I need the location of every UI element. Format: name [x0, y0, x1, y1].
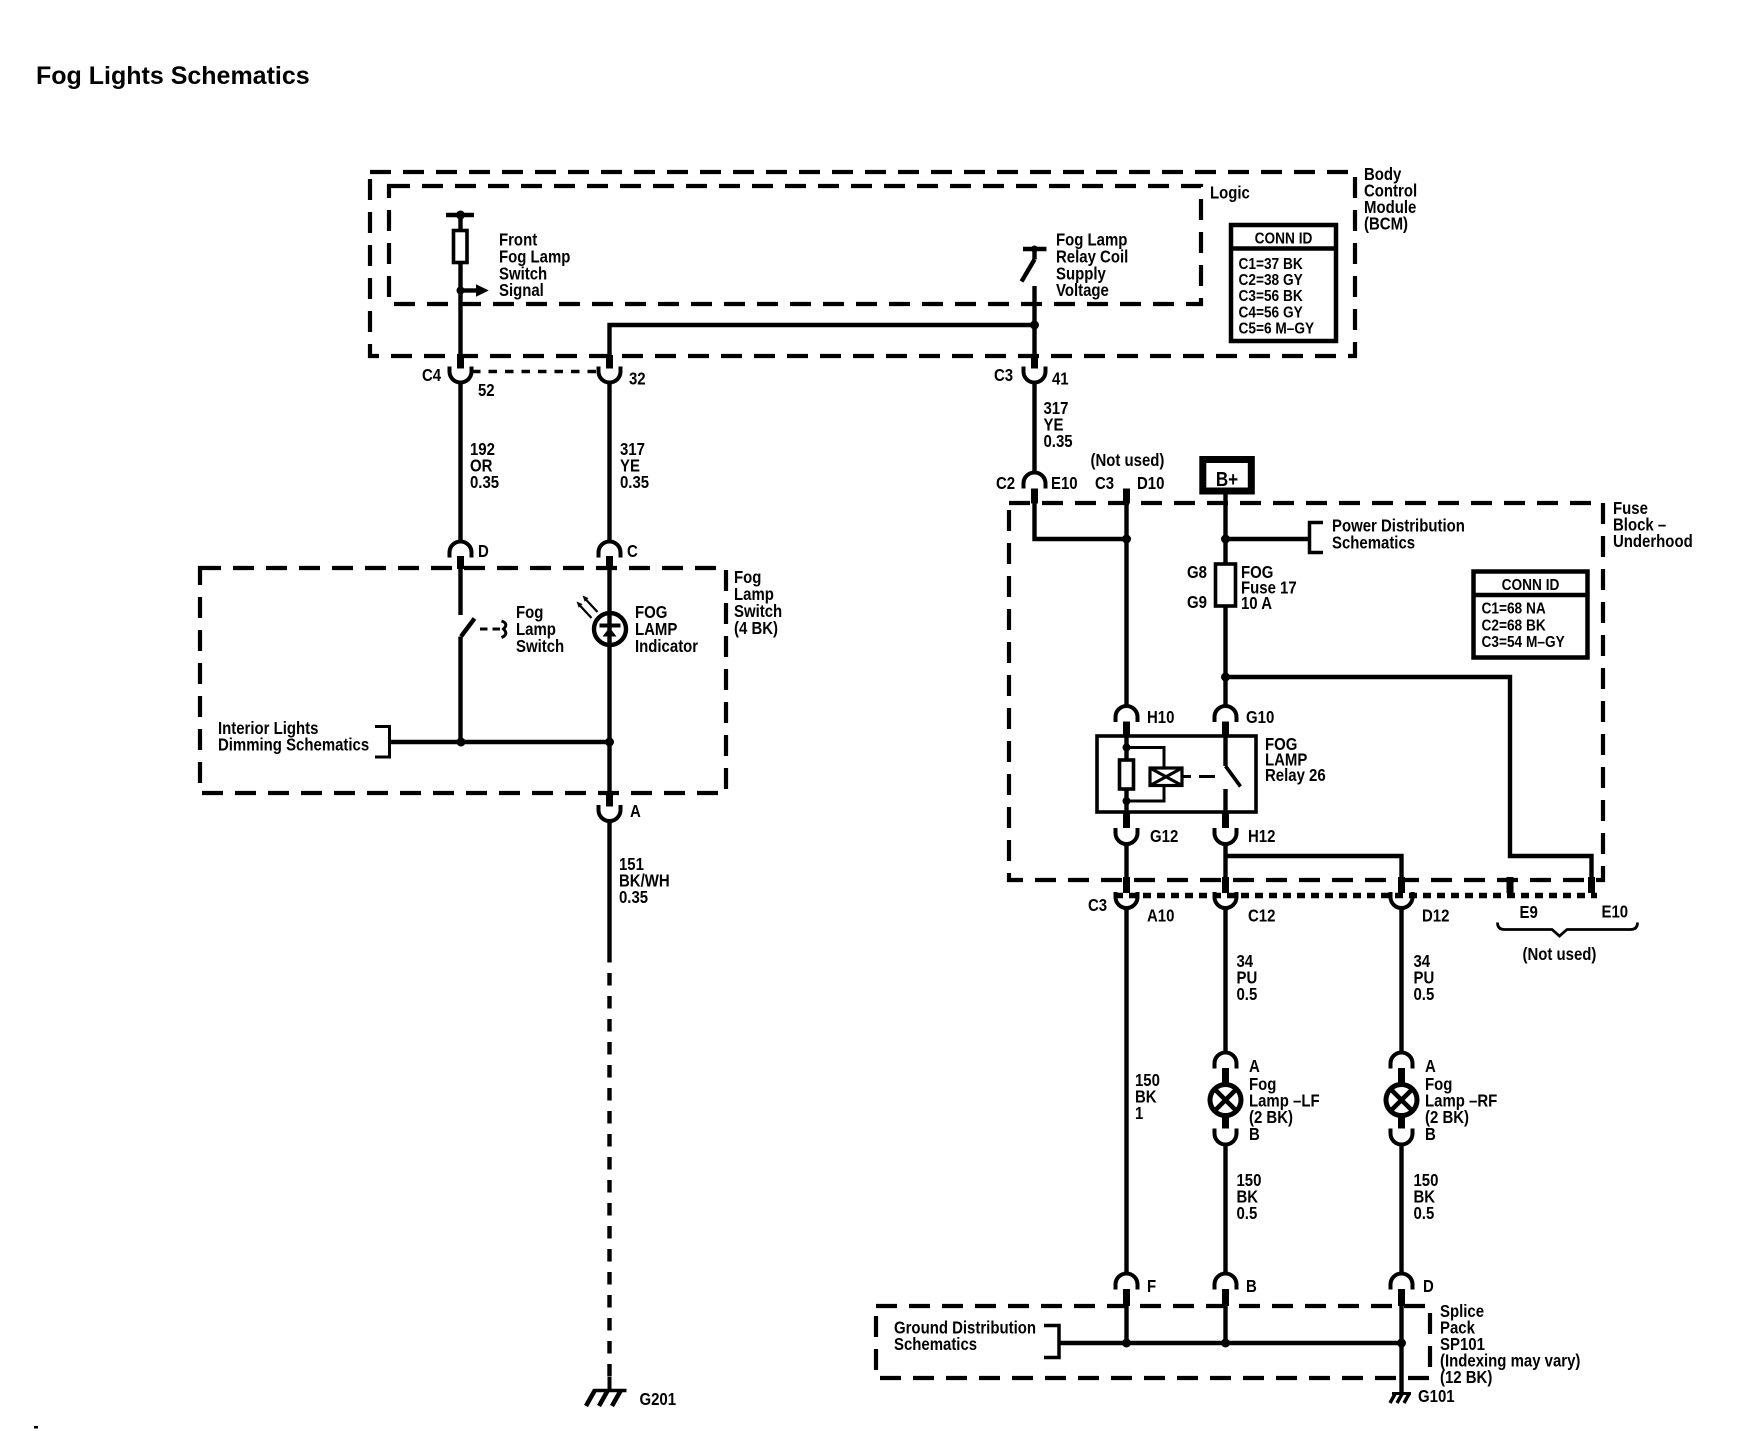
- connector pin D: [450, 542, 472, 570]
- svg-text:52: 52: [478, 381, 495, 400]
- svg-text:C3: C3: [1095, 474, 1114, 493]
- svg-text:CONN ID: CONN ID: [1502, 577, 1560, 594]
- CONN ID table (BCM): [1231, 225, 1336, 341]
- pin stub D10: [1123, 489, 1130, 504]
- bracket ground distribution: [1044, 1326, 1059, 1358]
- svg-text:CONN ID: CONN ID: [1255, 231, 1313, 248]
- connector C4 pin 52: [450, 355, 472, 383]
- svg-text:D: D: [478, 542, 489, 561]
- svg-text:G12: G12: [1150, 827, 1178, 846]
- svg-text:Fog Lights Schematics: Fog Lights Schematics: [36, 62, 310, 90]
- fuse FOG Fuse 17 10A: [1216, 564, 1236, 606]
- svg-text:G201: G201: [640, 1390, 677, 1409]
- page mark: [34, 1426, 38, 1429]
- svg-text:H10: H10: [1147, 708, 1174, 727]
- relay FOG LAMP Relay 26 box: [1097, 736, 1256, 812]
- svg-text:H12: H12: [1248, 827, 1275, 846]
- wire F down: [1124, 1306, 1128, 1343]
- wire: switch signal down to C4: [458, 263, 462, 356]
- wire H12 branch to D12: [1226, 856, 1402, 878]
- brace E9 E10 not used: [1498, 923, 1638, 937]
- svg-text:A10: A10: [1147, 906, 1174, 925]
- wire 150 BK 0.5 left: [1223, 1145, 1227, 1274]
- wire 317 YE left: [607, 383, 611, 542]
- wire 34 PU left: [1223, 908, 1227, 1053]
- junction at coil supply wire: [1030, 321, 1039, 330]
- connector pin G10: [1215, 706, 1237, 736]
- wire 151 dashed to ground: [607, 950, 611, 1377]
- wire D down to ground: [1399, 1306, 1403, 1393]
- connector pin D12: [1391, 892, 1413, 908]
- svg-text:C: C: [627, 542, 638, 561]
- ground G101: [1390, 1394, 1411, 1404]
- connector C3 pin 41: [1024, 355, 1046, 383]
- svg-text:E9: E9: [1520, 903, 1538, 922]
- connector pin H12: [1215, 812, 1237, 844]
- junction power distribution: [1221, 535, 1230, 544]
- connector C2 pin E10: [1024, 473, 1046, 504]
- connector pin 32: [599, 355, 621, 383]
- junction C2/D10: [1122, 535, 1131, 544]
- switch: fog lamp relay coil supply voltage: [1022, 246, 1047, 282]
- wire dimming rail: [390, 740, 610, 744]
- svg-text:B: B: [1425, 1125, 1436, 1144]
- fog lamp switch contact: [461, 568, 506, 638]
- junction F: [1122, 1339, 1131, 1348]
- fog lamp RF: [1386, 1053, 1417, 1145]
- CONN ID table (fuse block): [1474, 572, 1588, 658]
- svg-text:C4: C4: [422, 366, 441, 385]
- svg-text:A: A: [630, 802, 641, 821]
- wire B down: [1223, 1306, 1227, 1343]
- svg-text:D10: D10: [1137, 474, 1164, 493]
- B+ battery feed box: [1203, 460, 1252, 492]
- wire 192 OR: [458, 383, 462, 542]
- connector pin A: [599, 793, 621, 821]
- svg-text:G10: G10: [1246, 708, 1274, 727]
- wire C2 to relay column: [1035, 503, 1127, 539]
- connector pin C: [599, 542, 621, 570]
- LED fog lamp indicator: [577, 568, 627, 793]
- svg-text:D: D: [1423, 1277, 1434, 1296]
- fuse block underhood dashed box: [1009, 503, 1603, 880]
- fog lamp LF: [1210, 1053, 1241, 1145]
- wire D10 down to H10: [1124, 503, 1128, 706]
- svg-text:B: B: [1246, 1277, 1257, 1296]
- bracket interior lights: [375, 727, 390, 758]
- connector pin D: [1391, 1274, 1413, 1307]
- svg-text:B+: B+: [1216, 468, 1238, 491]
- svg-text:D12: D12: [1422, 906, 1449, 925]
- svg-text:(Not used): (Not used): [1091, 451, 1165, 470]
- wire to power distribution bracket: [1226, 537, 1310, 541]
- pin stubs fuse block bottom: [1123, 877, 1595, 893]
- bracket power distribution: [1310, 523, 1324, 553]
- wire fuse output to E9/E10: [1226, 677, 1592, 878]
- wire 151 BK/WH solid: [607, 821, 611, 950]
- svg-text:E10: E10: [1051, 474, 1078, 493]
- relay switch contact: [1226, 736, 1241, 812]
- wire G12 down: [1124, 844, 1128, 878]
- connector pin G12: [1116, 812, 1138, 844]
- ground distribution dashed box: [876, 1306, 1430, 1378]
- wire 317 YE right: [1032, 383, 1036, 473]
- relay coil branch: [1120, 736, 1216, 812]
- connector pin A10: [1116, 892, 1138, 908]
- svg-text:(Not used): (Not used): [1522, 945, 1596, 964]
- svg-text:G8: G8: [1187, 563, 1207, 582]
- svg-text:G9: G9: [1187, 593, 1207, 612]
- svg-text:C3: C3: [1088, 896, 1107, 915]
- junction switch/rail: [457, 738, 466, 747]
- connector pin F: [1116, 1274, 1138, 1307]
- wire H12 down: [1223, 844, 1227, 878]
- ground G201: [586, 1377, 627, 1406]
- junction fuse output: [1221, 673, 1230, 682]
- wire 34 PU right: [1399, 908, 1403, 1053]
- wire splice pack rail: [1059, 1341, 1402, 1345]
- wire: coil supply down to C3 41: [1032, 286, 1036, 361]
- wire 150 BK 0.5 right: [1399, 1145, 1403, 1274]
- wire switch to dimmer rail: [458, 637, 462, 743]
- wire fuse output: [1223, 606, 1227, 706]
- BCM logic inner dashed box: [389, 186, 1201, 304]
- svg-text:C12: C12: [1248, 906, 1275, 925]
- fog lamp switch dashed box: [200, 568, 726, 793]
- svg-text:C3: C3: [994, 366, 1013, 385]
- wire B+ down: [1223, 491, 1227, 564]
- connector pin C12: [1215, 892, 1237, 908]
- svg-text:A: A: [1249, 1057, 1260, 1076]
- svg-text:C2: C2: [996, 474, 1015, 493]
- svg-text:B: B: [1249, 1125, 1260, 1144]
- svg-text:32: 32: [629, 369, 646, 388]
- connector C3 dotted line: [1115, 893, 1597, 899]
- svg-text:A: A: [1425, 1057, 1436, 1076]
- connector dashed line C4: [472, 370, 598, 373]
- BCM outer dashed box: [370, 172, 1355, 356]
- junction D: [1397, 1339, 1406, 1348]
- junction led/rail: [605, 738, 614, 747]
- junction B: [1221, 1339, 1230, 1348]
- wire 150 BK 1: [1124, 908, 1128, 1274]
- connector pin B: [1215, 1274, 1237, 1307]
- arrow front fog lamp switch signal: [457, 284, 489, 296]
- resistor: front fog lamp switch signal: [446, 211, 474, 263]
- svg-text:Logic: Logic: [1210, 183, 1250, 202]
- svg-text:41: 41: [1052, 369, 1069, 388]
- svg-text:F: F: [1147, 1277, 1156, 1296]
- wire: 32 branch horizontal: [610, 325, 1035, 361]
- connector pin H10: [1116, 706, 1138, 736]
- svg-text:G101: G101: [1418, 1387, 1455, 1406]
- svg-text:E10: E10: [1602, 902, 1629, 921]
